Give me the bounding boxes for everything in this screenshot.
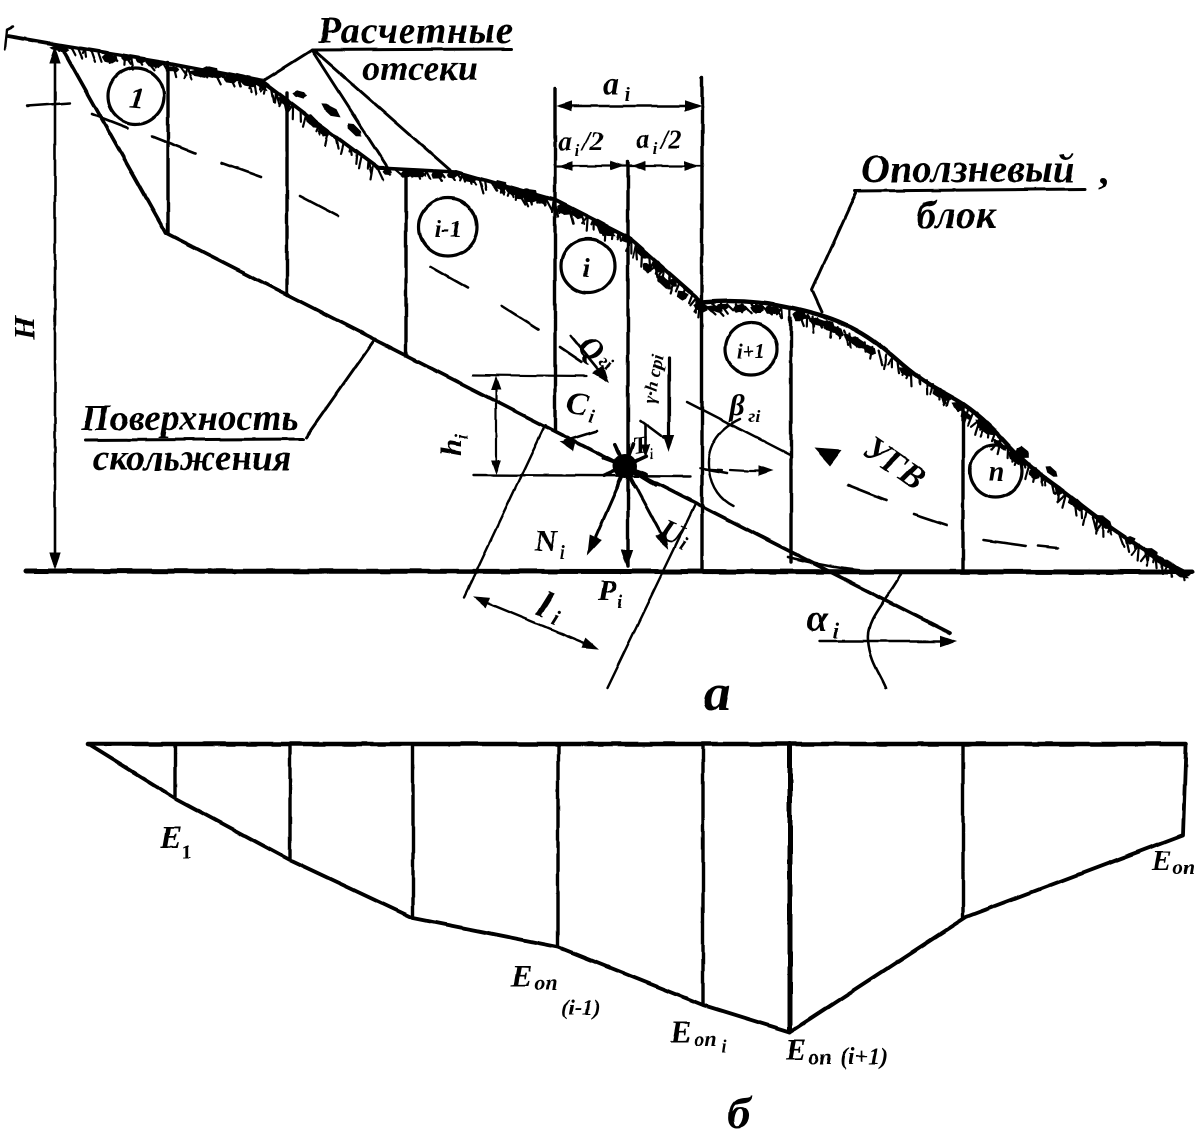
- svg-text:1: 1: [182, 841, 192, 863]
- svg-text:i+1: i+1: [737, 339, 765, 363]
- svg-text:оп: оп: [1173, 855, 1195, 879]
- svg-text:Р: Р: [597, 574, 617, 607]
- svg-text:i: i: [653, 139, 658, 158]
- svg-text:i: i: [617, 592, 623, 613]
- svg-text:i: i: [648, 447, 656, 464]
- svg-text:β: β: [728, 389, 745, 422]
- svg-text:оп: оп: [534, 970, 557, 995]
- svg-text:Е: Е: [511, 958, 533, 993]
- svg-text:оп: оп: [693, 1026, 716, 1051]
- svg-text:i: i: [721, 1036, 726, 1056]
- svg-text:гi: гi: [748, 406, 760, 426]
- svg-text:i: i: [833, 618, 840, 643]
- svg-text:а: а: [704, 665, 730, 722]
- svg-text:Оползневый: Оползневый: [861, 146, 1075, 191]
- svg-text:α: α: [806, 598, 828, 640]
- svg-text:Н: Н: [8, 315, 41, 341]
- svg-text:n: n: [988, 457, 1004, 488]
- svg-text:отсеки: отсеки: [362, 48, 478, 88]
- svg-text:Е: Е: [159, 819, 181, 855]
- svg-text:1: 1: [128, 81, 146, 115]
- svg-text:,: ,: [1098, 148, 1108, 193]
- svg-text:/2: /2: [658, 124, 681, 154]
- svg-text:i: i: [548, 604, 564, 630]
- svg-text:Е: Е: [670, 1014, 692, 1049]
- svg-text:hi: hi: [435, 433, 473, 456]
- svg-text:УГВ: УГВ: [856, 429, 932, 498]
- svg-text:(i+1): (i+1): [840, 1044, 888, 1070]
- svg-text:Е: Е: [1151, 845, 1171, 877]
- svg-text:скольжения: скольжения: [93, 438, 292, 479]
- svg-text:a: a: [603, 65, 619, 101]
- svg-text:i: i: [559, 542, 565, 564]
- svg-text:i: i: [582, 253, 590, 283]
- svg-text:i: i: [575, 141, 580, 160]
- svg-text:γ·h срi: γ·h срi: [639, 353, 667, 404]
- svg-text:i-1: i-1: [434, 216, 462, 243]
- svg-text:Расчетные: Расчетные: [317, 10, 514, 52]
- svg-text:Поверхность: Поверхность: [80, 398, 298, 439]
- svg-text:блок: блок: [916, 192, 997, 237]
- svg-text:N: N: [534, 523, 559, 558]
- svg-text:a: a: [636, 124, 650, 154]
- svg-text:a: a: [558, 126, 572, 156]
- svg-text:б: б: [728, 1087, 753, 1138]
- svg-text:i: i: [624, 84, 630, 106]
- svg-text:С: С: [563, 384, 591, 423]
- svg-text:/2: /2: [580, 126, 603, 156]
- svg-text:Е: Е: [785, 1032, 807, 1067]
- svg-text:оп: оп: [808, 1044, 831, 1069]
- svg-text:(i-1): (i-1): [561, 995, 600, 1020]
- svg-text:i: i: [587, 406, 597, 428]
